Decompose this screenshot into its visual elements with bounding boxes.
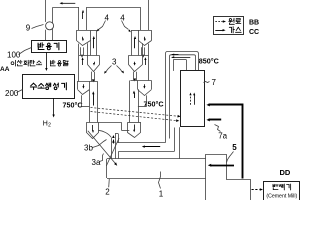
calciner vessel 7 [181,71,205,127]
text 이산화탄소 [11,60,42,66]
label 100 [7,48,32,60]
svg-text:3b: 3b [84,144,93,153]
hydrogen generator box 200 (수소생성기) [23,75,75,99]
wire: left column lower riser [90,81,98,122]
wire: calciner meal downleg outer [174,128,176,152]
wire: H2 outlet arrow [52,98,54,118]
cyclone stage1 right outlet stub [141,0,149,30]
wire: exhaust pipe to top edge [45,0,47,22]
cyclone stage4 left [87,122,122,138]
svg-text:(Cement Mill): (Cement Mill) [266,194,297,200]
cyclone stage1 left outlet stub [79,7,87,30]
flow arrow left in duct [142,145,160,147]
label BB [249,19,259,26]
label 7 [204,78,217,87]
svg-text:3: 3 [112,58,117,67]
cyclone stage3 right [130,81,151,96]
wire: top duct to right column [86,7,140,9]
label 3b [84,140,107,153]
chute from stage4 right to kiln [106,138,119,166]
flow arrow left on top duct [60,2,76,4]
label 9 [26,24,44,33]
wire: riser slot wall [115,134,118,143]
wire: inlet chamber wall [118,151,120,159]
blower 9 (circle) [46,22,54,30]
svg-text:850°C: 850°C [199,56,219,65]
dashed feed line upper [91,108,181,118]
wire: stage1 left dip tube [81,47,84,57]
flow chevrons in loop [172,54,191,59]
label 4 left [97,14,110,32]
thick gas duct into calciner [206,103,242,178]
label 1 [159,172,164,199]
dashed clinker arrow to mill [252,188,264,191]
svg-text:DD: DD [280,168,291,177]
label 3 [104,58,124,74]
cyclone stage2 left [79,43,100,81]
label CC [249,29,259,36]
wire: calciner outlet loop outer [166,52,199,143]
wire: stage3 left chute [82,95,90,106]
svg-text:5: 5 [232,143,237,152]
svg-text:7: 7 [212,78,217,87]
text 반응물 [50,60,68,66]
thick stub 7a [206,118,221,121]
cyclone stage4 right [128,122,141,137]
wire: calciner outlet loop inner [170,55,196,139]
legend box [214,17,244,35]
svg-text:2: 2 [105,188,110,197]
wire: duct above kiln upper [117,142,165,144]
wire: right column lower riser [130,81,139,123]
text 850C [199,56,219,65]
svg-text:100: 100 [7,51,21,60]
label 200 [5,89,23,98]
wire: stage4 right wrap inlet [121,122,129,130]
svg-text:1: 1 [159,190,164,199]
wire: stage4 left takeoff [98,130,111,137]
svg-text:200: 200 [5,89,19,98]
svg-text:3a: 3a [92,158,101,167]
wire: kiln riser duct [112,134,116,159]
wire: stage2 right dip tube [134,72,137,82]
label DD [280,168,291,177]
label 7a [215,125,228,141]
chute from stage4 left to kiln [88,131,117,166]
svg-text:H: H [43,121,48,128]
wire: stage1 right riser pipe [132,30,139,55]
wire: calciner meal downleg inner [179,127,181,159]
text 750C left [63,101,83,110]
cement mill box (분쇄기) [264,182,300,201]
wire: loop entry stub [173,60,186,71]
svg-text:AA: AA [0,66,10,73]
wire: reactor to hydrogen generator arrow [45,53,47,72]
svg-text:2: 2 [48,123,51,129]
rotary kiln 1 [107,159,206,179]
wire: pipe reactor to duct [46,7,53,40]
svg-text:CC: CC [249,29,259,36]
wire: stage1 right dip tube [142,47,145,57]
wire: stage1 left riser pipe [91,30,97,55]
text 750C right [144,100,164,109]
svg-text:BB: BB [249,19,259,26]
cyclone stage2 right [129,43,149,80]
label 3a [92,154,104,168]
svg-text:9: 9 [26,24,31,33]
label 2 [105,179,110,197]
riser flow chevrons [112,135,115,144]
cyclone stage3 left [77,81,98,94]
burner arrow 5 [208,164,234,167]
svg-text:4: 4 [120,14,125,23]
cyclone stage1 right [132,31,152,46]
wire: duct above kiln lower [119,151,175,153]
label 4 right [120,14,131,33]
label H2 [43,121,51,129]
svg-text:7a: 7a [218,132,227,141]
dashed feed line lower [91,112,180,122]
label 5 [227,143,238,163]
reactor box 100 (반응기) [32,41,67,53]
wire: top duct horizontal [53,7,79,9]
flow arrows inside calciner [189,93,195,105]
svg-text:750°C: 750°C [63,101,83,110]
kiln outlet hood [206,155,251,201]
label AA [0,66,10,73]
cyclone stage1 left [77,31,97,46]
wire: stage3 right chute [138,95,147,106]
wire: stage2 left dip tube [92,72,95,83]
